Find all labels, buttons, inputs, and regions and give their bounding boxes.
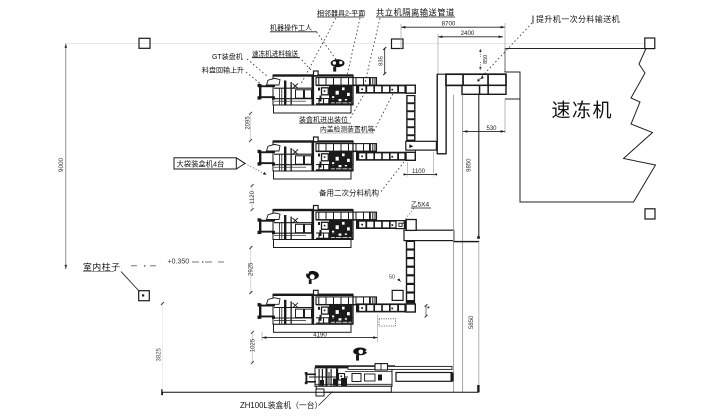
svg-text:速冻机进料输送: 速冻机进料输送	[252, 49, 299, 58]
leader ZH100 carton machine	[319, 392, 333, 406]
leader carton loading station	[351, 93, 366, 119]
svg-text:9850: 9850	[467, 158, 473, 172]
dimension 1100	[404, 152, 438, 177]
svg-text:8700: 8700	[442, 21, 456, 28]
end box of M3 conveyor	[406, 220, 416, 231]
leader top-right distribution conveyor	[480, 23, 533, 80]
svg-text:装盒机进出装位: 装盒机进出装位	[299, 115, 348, 124]
label top-right distribution conveyor	[533, 14, 620, 24]
dimension 1120 chain	[250, 184, 256, 211]
svg-text:提升机一次分料输送机: 提升机一次分料输送机	[536, 14, 620, 24]
svg-text:1100: 1100	[412, 169, 426, 175]
ZH100 outfeed conveyor	[396, 373, 454, 382]
svg-text:机器操作工人: 机器操作工人	[270, 23, 312, 32]
column top-left	[139, 38, 150, 48]
dimension 8700	[401, 21, 505, 71]
svg-text:料盘回输上升: 料盘回输上升	[202, 66, 244, 75]
column indoor with dot	[139, 291, 150, 301]
dimension 50	[389, 275, 401, 282]
label shared isolation conveyor	[376, 8, 455, 18]
conveyor junction line	[454, 241, 479, 243]
svg-text:1025: 1025	[250, 338, 256, 352]
dimension 4190	[262, 315, 378, 342]
svg-text:1120: 1120	[250, 190, 256, 204]
svg-text:ZH100L装盒机（一台）: ZH100L装盒机（一台）	[240, 400, 322, 410]
svg-text:530: 530	[486, 126, 497, 132]
leader spare distribution mechanism	[381, 162, 404, 192]
cell conveyor of M4	[356, 303, 415, 312]
svg-text:GT装盘机: GT装盘机	[212, 52, 243, 61]
svg-text:内盖检测装置机等: 内盖检测装置机等	[320, 125, 375, 134]
svg-text:乙5X4: 乙5X4	[411, 201, 429, 209]
dimension 530	[463, 126, 505, 133]
leader tray return lift	[246, 72, 262, 85]
svg-text:5850: 5850	[469, 315, 475, 329]
horizontal connector from M3 to main conveyor	[404, 230, 479, 241]
open box near M4 conveyor	[392, 290, 403, 300]
dashed accessory box below M4 conveyor	[379, 319, 396, 326]
column right-lower	[645, 209, 655, 219]
svg-text:2095: 2095	[245, 116, 251, 130]
leader indoor column	[121, 272, 139, 292]
svg-text:速冻机: 速冻机	[552, 100, 614, 122]
vertical conveyor stack from M3 to M4	[406, 241, 415, 304]
leader bag carton machines	[245, 164, 267, 176]
cell conveyor of M3	[356, 220, 415, 229]
freezer inlet notch line	[505, 98, 520, 100]
svg-text:9000: 9000	[58, 157, 65, 172]
tick at end of M2 conveyor	[414, 150, 416, 161]
leader adjacent unit right	[347, 18, 360, 76]
dimension 2095 chain	[245, 112, 252, 142]
dimension 2925 chain	[248, 246, 254, 294]
leader GT tray loader	[247, 59, 267, 76]
carton machine ZH100 body	[315, 365, 395, 392]
freezer dimension extension stub	[504, 99, 506, 133]
elevation mark +0.350	[131, 259, 224, 267]
worker near M3	[306, 271, 319, 284]
dimension 3825 vertical	[156, 302, 164, 392]
label operators	[270, 23, 317, 32]
column top-middle	[392, 39, 404, 49]
svg-text:室内柱子: 室内柱子	[83, 261, 121, 272]
svg-text:备用二次分料机构: 备用二次分料机构	[319, 187, 379, 197]
construction line between columns	[66, 43, 645, 45]
main long conveyor middle line	[462, 95, 464, 392]
freezer outline with break-line zigzag	[505, 49, 656, 203]
dimension 850 at inlet	[480, 49, 490, 70]
label lid inspection units	[320, 125, 375, 134]
leader lid inspection units	[374, 92, 394, 132]
main long conveyor right line upper dark part	[477, 95, 480, 239]
leader freezer infeed conveyor	[299, 57, 312, 71]
main long conveyor right line lower part	[477, 243, 479, 392]
svg-text:835: 835	[378, 56, 384, 66]
label freezer infeed conveyor	[252, 49, 299, 58]
worker at M1	[331, 59, 345, 71]
ZH100 top thin bar	[348, 366, 452, 369]
small dimension tick right of M4 conveyor	[425, 304, 430, 318]
svg-text:3825: 3825	[156, 347, 162, 361]
label Z5X4	[411, 201, 431, 209]
cell conveyor of M1	[356, 85, 415, 94]
worker at ZH100	[353, 348, 367, 361]
packaging machine M2	[258, 137, 377, 179]
column top-right	[645, 38, 655, 49]
label adjacent unit plan	[317, 9, 365, 18]
leader adjacent unit left	[301, 18, 336, 84]
label carton loading station	[299, 115, 351, 124]
svg-text:共立机隔离输送管道: 共立机隔离输送管道	[376, 8, 455, 18]
transfer bar below M1 stack	[406, 141, 437, 150]
packaging machine M1	[258, 71, 377, 113]
svg-text:2925: 2925	[248, 262, 254, 276]
boxed label bag carton machines	[174, 158, 245, 169]
packaging machine M3	[258, 206, 377, 248]
dimension 9000 vertical	[58, 44, 67, 270]
freezer inlet conveyor lower row	[462, 85, 506, 94]
leader Z5X4	[402, 209, 414, 225]
marker cell at end of M3 conveyor	[396, 221, 404, 229]
dimension 2400	[438, 30, 503, 73]
svg-text:850: 850	[483, 55, 489, 64]
leader shared isolation conveyor	[364, 18, 380, 87]
return up-leg conveyor to freezer inlet	[437, 74, 446, 154]
svg-text:大袋装盒机4台: 大袋装盒机4台	[177, 159, 225, 168]
vertical conveyor stack from M1	[406, 95, 415, 142]
dimension 835 vertical	[378, 47, 386, 75]
svg-text:50: 50	[389, 275, 395, 281]
bottom reference line	[161, 389, 479, 395]
svg-text:+0.350: +0.350	[168, 259, 190, 266]
ZH100 infeed	[305, 372, 316, 384]
ZH100 top box	[375, 364, 388, 370]
cell conveyor of M2	[356, 152, 415, 161]
dimension 1025 chain	[250, 331, 256, 364]
label indoor column	[83, 261, 121, 272]
svg-text:相邻器具2-平面: 相邻器具2-平面	[317, 9, 365, 18]
main long conveyor left line	[453, 95, 455, 392]
svg-text:4190: 4190	[313, 331, 327, 338]
packaging machine M4	[258, 290, 377, 332]
leader operators to worker	[317, 32, 337, 60]
freezer inlet conveyor upper row	[446, 74, 506, 85]
ZH100 inner mechanism	[309, 369, 392, 397]
svg-text:2400: 2400	[461, 30, 475, 37]
